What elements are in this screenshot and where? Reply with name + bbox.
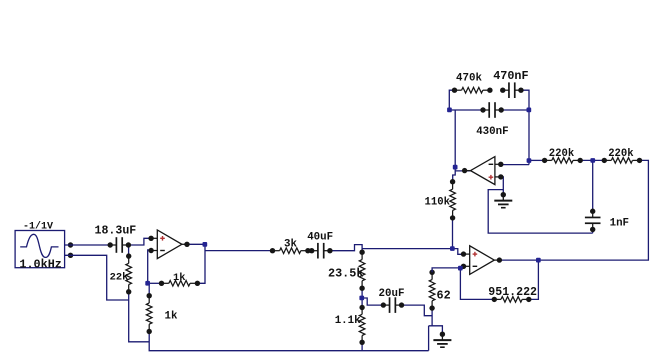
wire C2 to 23.5k top bbox=[331, 245, 363, 253]
junction U3 + node bbox=[450, 246, 455, 251]
svg-text:430nF: 430nF bbox=[476, 126, 508, 138]
op-amp U1 bbox=[148, 230, 189, 259]
svg-text:3k: 3k bbox=[284, 238, 297, 250]
ground at U2 + bbox=[494, 192, 512, 208]
wire to 110k top bbox=[453, 171, 456, 182]
capacitor C4 470nF bbox=[500, 82, 524, 98]
resistor R4 3k bbox=[270, 248, 311, 254]
wire U2 output bbox=[455, 170, 471, 172]
wire U3 - down to R9 bbox=[460, 268, 494, 299]
svg-text:220k: 220k bbox=[608, 148, 634, 160]
svg-text:1k: 1k bbox=[165, 311, 178, 323]
svg-text:-1/1V: -1/1V bbox=[23, 220, 53, 232]
op-amp U3 bbox=[461, 246, 502, 275]
capacitor C2 40uF bbox=[309, 243, 333, 259]
svg-text:220k: 220k bbox=[549, 148, 575, 160]
svg-text:20uF: 20uF bbox=[379, 288, 405, 300]
junction U3 - node bbox=[458, 266, 463, 271]
resistor R9 951.222 bbox=[492, 297, 532, 303]
svg-text:470nF: 470nF bbox=[493, 69, 528, 83]
resistor R1 22k bbox=[126, 253, 132, 294]
wire junction to R2 left bbox=[148, 282, 162, 284]
wire junction to 220k bbox=[529, 159, 545, 161]
svg-text:1nF: 1nF bbox=[610, 218, 629, 230]
capacitor C1 18.3uF bbox=[108, 237, 132, 253]
wire source+ to C1 bbox=[65, 244, 111, 246]
resistor R11 220k bbox=[542, 158, 583, 164]
wire 470k loop top right bbox=[521, 90, 529, 164]
svg-text:470k: 470k bbox=[456, 73, 482, 85]
ground near C3 bbox=[433, 332, 451, 348]
wire junction to C3 bbox=[362, 298, 384, 305]
wire U2 - input bbox=[500, 164, 529, 166]
svg-text:40uF: 40uF bbox=[307, 232, 333, 244]
wire R2 right up to U1 output bbox=[197, 244, 205, 283]
junction U2 - node bbox=[527, 158, 532, 163]
wire C1 to 22k top bbox=[128, 245, 130, 256]
wire U1 - input down bbox=[148, 250, 152, 283]
wire 430nF row left bbox=[449, 109, 483, 111]
svg-text:951.222: 951.222 bbox=[488, 286, 537, 299]
resistor R5 23.5k bbox=[359, 250, 365, 291]
svg-text:62: 62 bbox=[437, 288, 451, 302]
junction 430nF left node bbox=[447, 108, 452, 113]
wire U3 - pin link bbox=[460, 266, 464, 268]
junction 220k mid node bbox=[590, 158, 595, 163]
wire 430nF row right bbox=[501, 109, 529, 111]
wire 1.1k bottom to rail bbox=[361, 342, 363, 350]
wire R9 right up to output bbox=[529, 260, 539, 299]
wire junction to U3 + bbox=[452, 249, 464, 255]
svg-text:1k: 1k bbox=[173, 272, 185, 284]
wire junction down to R3 top bbox=[148, 283, 150, 295]
wire 62 bottom stub bbox=[431, 308, 433, 326]
wire output branch to R4 bbox=[205, 250, 273, 252]
junction U3 output node bbox=[536, 258, 541, 263]
resistor R8 470k bbox=[452, 87, 493, 93]
wire to U3 + input bbox=[362, 248, 452, 250]
svg-text:1.0kHz: 1.0kHz bbox=[19, 257, 61, 271]
resistor R12 220k bbox=[602, 158, 643, 164]
wire 22k bottom to bottom rail bbox=[129, 292, 150, 342]
wire 1nF bottom stub bbox=[592, 230, 594, 234]
wire 220k mid node bbox=[580, 159, 604, 161]
svg-text:23.5k: 23.5k bbox=[328, 267, 363, 281]
wire source- down to 22k bottom bbox=[65, 255, 129, 300]
resistor R3 1k bbox=[146, 293, 152, 334]
wire left vertical to U2 output bbox=[454, 110, 456, 171]
wire bottom rail bbox=[149, 332, 428, 351]
junction U1 - feedback node bbox=[145, 281, 150, 286]
wire U2 + feedback down bbox=[488, 190, 593, 234]
svg-text:1.1k: 1.1k bbox=[335, 315, 361, 327]
wire R4 to C2 bbox=[308, 250, 311, 252]
junction 430nF right node bbox=[527, 108, 532, 113]
capacitor C3 20uF bbox=[381, 297, 405, 313]
wire C1 to U1 + input bbox=[129, 238, 151, 245]
junction U2 output node bbox=[453, 165, 458, 170]
svg-text:18.3uF: 18.3uF bbox=[95, 225, 137, 238]
svg-text:110k: 110k bbox=[425, 197, 451, 209]
resistor R10 110k bbox=[450, 179, 456, 221]
wire C3 right to node bbox=[402, 305, 433, 316]
resistor R6 1.1k bbox=[359, 305, 365, 345]
capacitor C5 430nF bbox=[480, 102, 504, 118]
wire 470k loop top left bbox=[449, 90, 454, 110]
wire 62 top to U3 - net bbox=[432, 268, 460, 272]
wire U1 output to junction bbox=[184, 243, 205, 245]
wire 23.5k to 1.1k bbox=[361, 288, 363, 307]
resistor R7 62 bbox=[429, 270, 435, 311]
capacitor C6 1nF bbox=[585, 209, 601, 233]
resistor R2 1k feedback bbox=[159, 281, 200, 287]
AC voltage source V1 (-1/1V 1.0kHz) bbox=[15, 231, 73, 268]
wire mid node down to 1nF bbox=[592, 160, 594, 211]
junction 23.5k/1.1k/C3 node bbox=[359, 296, 364, 301]
wire node down to rail bbox=[428, 326, 430, 351]
wire 110k bottom to U3 + junction bbox=[452, 218, 454, 249]
wire U2 + to ground bbox=[500, 177, 503, 195]
wire U3 output to right edge bbox=[500, 160, 649, 260]
junction U1 output node bbox=[203, 242, 208, 247]
op-amp U2 bbox=[462, 157, 504, 185]
wire node to ground bbox=[429, 326, 443, 334]
svg-text:22k: 22k bbox=[110, 272, 129, 284]
